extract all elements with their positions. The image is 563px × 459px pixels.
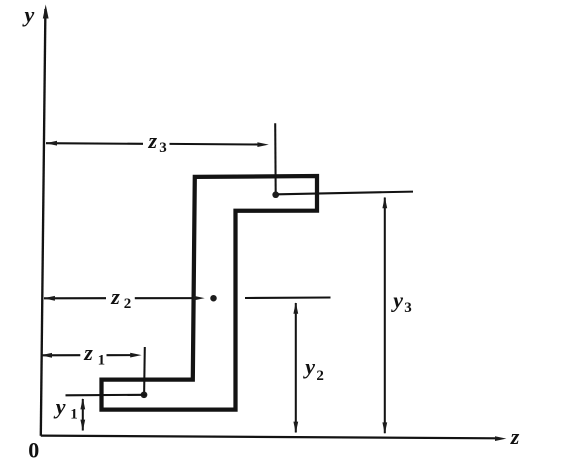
svg-text:3: 3 [404,300,412,316]
svg-text:y: y [22,2,35,27]
svg-text:2: 2 [316,368,324,384]
z2 dimension line left segment [44,297,106,299]
z2 left arrowhead [44,296,55,301]
centroid C2 dot [210,295,217,302]
y1 bottom arrowhead [80,420,85,431]
svg-text:1: 1 [98,353,106,369]
y3 top arrowhead [382,197,387,208]
z2 dimension line right segment [135,297,195,299]
y3 bottom arrowhead [382,422,387,433]
y axis [41,9,46,436]
svg-text:y: y [390,288,403,313]
svg-text:z: z [510,424,520,449]
centroid C1 dot [141,391,148,398]
y1 top arrowhead [80,398,85,409]
y2 reference line [245,296,331,299]
centroid C3 dot [272,191,279,198]
y3 dimension line [384,198,386,434]
svg-text:y: y [53,394,66,419]
svg-text:y: y [302,354,315,379]
centroid C3 horizontal line [278,192,413,195]
z1 dimension line right segment [107,354,133,356]
y2 bottom arrowhead [293,422,298,433]
y1 dimension line [82,399,84,431]
centroid C1 vertical line [143,347,146,395]
z3 left arrowhead [46,141,57,146]
z2 right arrowhead [193,296,204,301]
z1 right arrowhead [130,353,141,358]
y2 top arrowhead [293,302,298,313]
centroid C3 vertical line [274,123,277,194]
z3 dimension line right segment [170,143,260,146]
z axis arrowhead [495,436,506,441]
z axis [41,436,497,439]
Z-section outline [102,176,318,410]
svg-text:0: 0 [28,437,39,459]
centroid C1 horizontal line [66,394,147,397]
svg-text:2: 2 [124,296,132,312]
y axis arrowhead [43,5,49,19]
svg-text:z: z [83,340,93,365]
z3 dimension line left segment [46,142,143,145]
z1 left arrowhead [41,353,52,358]
svg-text:z: z [148,128,158,153]
svg-text:3: 3 [159,140,167,156]
z1 dimension line left segment [41,354,80,356]
svg-text:1: 1 [70,407,78,423]
y2 dimension line [295,303,297,433]
z3 right arrowhead [257,142,268,147]
svg-text:z: z [110,284,120,309]
